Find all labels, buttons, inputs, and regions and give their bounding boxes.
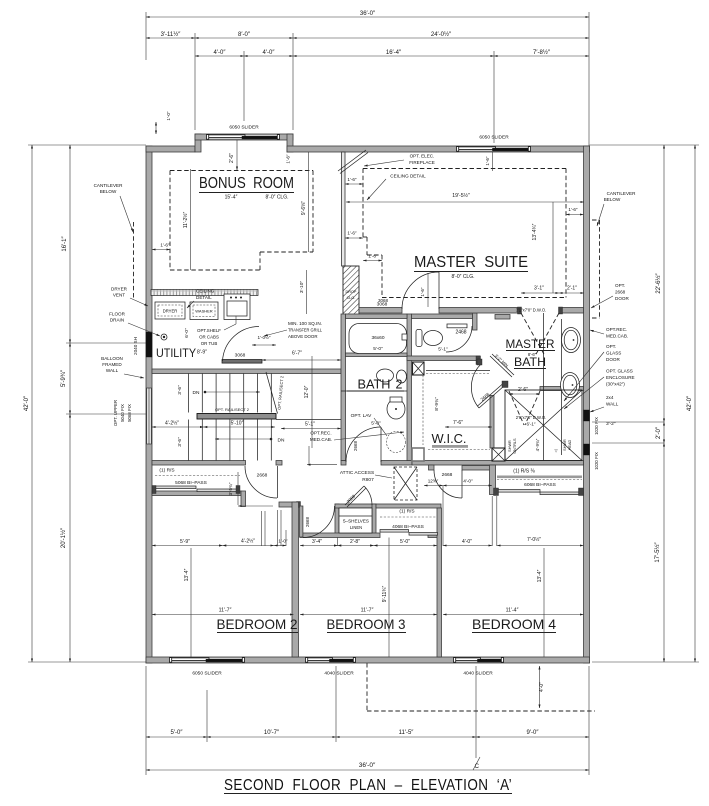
- toilet master toilet room: [424, 331, 443, 346]
- svg-text:OPT. LAV: OPT. LAV: [351, 413, 373, 419]
- svg-text:8′-0″ CLG.: 8′-0″ CLG.: [266, 195, 289, 201]
- svg-text:8′-9¾″: 8′-9¾″: [434, 397, 440, 411]
- wall middle band left: [152, 461, 246, 466]
- svg-text:6′-0″: 6′-0″: [184, 328, 190, 338]
- svg-text:13′-4″: 13′-4″: [537, 569, 543, 582]
- toilet bath2: [387, 399, 405, 419]
- bath2 tub front wall: [346, 353, 408, 357]
- svg-text:CANTILEVER: CANTILEVER: [94, 183, 124, 188]
- svg-text:16′-4″: 16′-4″: [386, 50, 402, 56]
- svg-text:DRYER: DRYER: [163, 309, 178, 314]
- vanity bath2: [341, 390, 407, 392]
- dimension 9'-0" bottom: [476, 736, 589, 738]
- svg-text:OR TUB: OR TUB: [201, 341, 218, 346]
- dimension 16'-1": [69, 145, 71, 343]
- svg-text:3068: 3068: [235, 353, 246, 359]
- svg-text:WASHER: WASHER: [195, 309, 213, 314]
- bipass 5068 bedroom2 closet: [155, 486, 196, 489]
- dimension 24'-0 1/2": [293, 37, 589, 39]
- svg-text:MED.CAB.: MED.CAB.: [606, 334, 628, 339]
- svg-text:CANTILEVER: CANTILEVER: [607, 191, 637, 196]
- dimension 36'-0" bottom: [146, 769, 589, 771]
- wic closet rod dashed: [422, 375, 424, 445]
- window 6050 slider top right: [457, 146, 530, 151]
- dimension 16'-4": [293, 55, 494, 57]
- svg-text:3′-6″: 3′-6″: [177, 437, 183, 447]
- bay wall top: [195, 134, 293, 140]
- wall hall stub bedroom4 door: [429, 465, 435, 470]
- extension lines top: [145, 12, 147, 60]
- svg-text:16′-1″: 16′-1″: [62, 235, 68, 251]
- dim 9'-11 3/4" bedroom3: [388, 538, 390, 658]
- svg-text:OPT. GLASS: OPT. GLASS: [606, 369, 633, 374]
- wic top wall: [407, 356, 480, 361]
- leader med cab: [308, 446, 310, 464]
- svg-text:36′-0″: 36′-0″: [359, 762, 376, 769]
- washer utility: [190, 302, 218, 320]
- svg-text:WALL: WALL: [606, 402, 619, 407]
- svg-text:CLG.: CLG.: [347, 296, 356, 300]
- wic right wall: [490, 396, 494, 449]
- svg-text:FLOOR: FLOOR: [109, 312, 126, 317]
- dryer utility: [155, 302, 185, 319]
- bedroom2 closet front wall: [152, 491, 241, 496]
- wall stairs top: [152, 369, 341, 374]
- svg-text:12′-0″: 12′-0″: [304, 385, 310, 398]
- svg-text:3′-6″: 3′-6″: [177, 385, 183, 395]
- dimension 7'-8 1/2": [494, 55, 589, 57]
- svg-text:C: C: [475, 764, 480, 770]
- svg-text:10′-7″: 10′-7″: [264, 730, 280, 736]
- dimension 3'-11 1/2": [146, 37, 195, 39]
- wall bath area top: [346, 314, 408, 319]
- svg-text:5′-10″: 5′-10″: [231, 421, 244, 427]
- dimension 36'-0" top: [146, 16, 589, 18]
- svg-text:1′-6″: 1′-6″: [368, 254, 378, 259]
- bay wall left jog: [195, 134, 201, 152]
- svg-text:(30″x42″): (30″x42″): [606, 382, 625, 387]
- svg-text:1′-0″: 1′-0″: [166, 111, 171, 121]
- svg-text:WALL: WALL: [106, 368, 119, 373]
- svg-text:2′-8″: 2′-8″: [350, 539, 360, 545]
- svg-text:BALLOON: BALLOON: [101, 356, 123, 361]
- svg-text:3′-4″: 3′-4″: [312, 539, 322, 545]
- svg-text:3′-11½″: 3′-11½″: [161, 31, 182, 38]
- bedroom2 closet jog: [241, 491, 246, 507]
- svg-text:SECOND FLOOR PLAN – ELEVAT: SECOND FLOOR PLAN – ELEVATION ‘A’: [224, 777, 512, 794]
- window 5068 FIX left wall: [147, 388, 151, 444]
- dim 3-2 min diagonal: [492, 354, 514, 375]
- svg-text:MASTER SUITE: MASTER SUITE: [414, 254, 528, 271]
- bipass 4068 bedroom3 closet: [380, 530, 409, 533]
- svg-text:4′-9¾″: 4′-9¾″: [535, 438, 540, 451]
- dimension 4'-0" cantilever: [539, 666, 541, 708]
- linen closet shelves: [339, 508, 372, 533]
- window 6050 slider bedroom2: [170, 657, 244, 662]
- master suite south wall c: [559, 308, 584, 314]
- dim 9'-6 5/8" bonus: [308, 152, 310, 252]
- door bath2 2668: [346, 427, 381, 462]
- window 6050 slider bay: [207, 134, 279, 139]
- wall bath2 bottom left stub: [341, 461, 346, 466]
- svg-text:LINEN: LINEN: [350, 525, 362, 530]
- svg-text:OPT.: OPT.: [615, 283, 625, 288]
- svg-text:GLASS: GLASS: [606, 351, 621, 356]
- svg-text:HEAD: HEAD: [568, 439, 572, 450]
- svg-text:22′-6½″: 22′-6½″: [655, 272, 662, 293]
- svg-text:12⅝″: 12⅝″: [428, 479, 439, 484]
- dwo shower dashed: [509, 391, 524, 425]
- svg-text:ENCLOSURE: ENCLOSURE: [606, 375, 635, 380]
- svg-text:20′-1½″: 20′-1½″: [60, 527, 67, 548]
- svg-text:11′-4″: 11′-4″: [506, 608, 519, 614]
- svg-text:5040 FIX: 5040 FIX: [120, 404, 125, 422]
- wall wic/shower bottom: [412, 461, 584, 466]
- svg-text:OPT.REC.: OPT.REC.: [310, 431, 331, 436]
- dwo master suite dashed: [518, 307, 522, 314]
- wall bedroom3/4 divider: [437, 508, 442, 657]
- svg-text:5′-1″: 5′-1″: [438, 347, 448, 353]
- sink bath2: [377, 369, 394, 382]
- master tub bowl lower: [561, 373, 580, 398]
- svg-text:OR CABS: OR CABS: [199, 335, 219, 340]
- window 2040 SH left wall: [146, 332, 152, 357]
- svg-text:OPT. RAIL/SECT 2: OPT. RAIL/SECT 2: [215, 407, 250, 412]
- cantilever outline below bottom: [366, 663, 368, 711]
- dimension 2'-0" right: [663, 422, 665, 443]
- wall hall south of linen: [376, 504, 441, 508]
- svg-text:36′-0″: 36′-0″: [360, 11, 376, 17]
- svg-text:BELOW: BELOW: [100, 189, 117, 194]
- dim 11'-2 1/2" bonus: [190, 169, 192, 270]
- master suite south wall b: [439, 308, 521, 314]
- linen closet right wall: [372, 504, 376, 534]
- stairs dim 4'-2 1/2": [152, 426, 204, 428]
- svg-text:OPT. ELEC.: OPT. ELEC.: [410, 154, 435, 159]
- svg-text:SHWR: SHWR: [563, 439, 567, 451]
- wall bath2 right: [407, 314, 412, 461]
- svg-text:4′-2½″: 4′-2½″: [165, 420, 179, 427]
- svg-text:2668: 2668: [442, 472, 453, 478]
- svg-text:2x4: 2x4: [606, 395, 614, 400]
- svg-text:4′-2½″: 4′-2½″: [241, 538, 255, 545]
- wall middle band stub: [276, 461, 282, 466]
- svg-text:4040 SLIDER: 4040 SLIDER: [324, 671, 354, 677]
- svg-text:4040 SLIDER: 4040 SLIDER: [463, 671, 493, 677]
- svg-text:4′-0″: 4′-0″: [462, 539, 472, 545]
- wall bath2 bottom right: [381, 461, 412, 466]
- dimension 5'-9 3/4": [69, 343, 71, 414]
- svg-text:8′-6″: 8′-6″: [528, 352, 537, 357]
- svg-text:19′-5½″: 19′-5½″: [452, 192, 470, 199]
- svg-text:11′-7″: 11′-7″: [219, 608, 232, 614]
- svg-text:BATH: BATH: [514, 355, 546, 369]
- stairs dim 5'-10": [204, 426, 275, 428]
- master tub inner edge: [561, 319, 563, 455]
- door master bath 2668: [479, 386, 504, 408]
- wall bedroom4 top: [462, 466, 494, 471]
- dimension 42'-0" right: [694, 145, 696, 662]
- svg-text:6050 SLIDER: 6050 SLIDER: [229, 125, 259, 131]
- svg-text:2668: 2668: [257, 473, 268, 479]
- svg-text:2040 SH: 2040 SH: [133, 337, 138, 355]
- shower top wall: [540, 387, 584, 391]
- chase wall drop clg hatched: [343, 266, 359, 316]
- svg-text:VENT: VENT: [113, 293, 125, 298]
- exterior wall left: [146, 146, 152, 663]
- svg-text:DOOR: DOOR: [606, 357, 620, 362]
- shower master: [505, 390, 582, 461]
- svg-text:(1) R/S: (1) R/S: [159, 468, 174, 474]
- svg-text:9′-6⅝″: 9′-6⅝″: [301, 201, 307, 215]
- linen closet top wall: [335, 504, 376, 508]
- svg-text:11′-2½″: 11′-2½″: [182, 212, 189, 229]
- svg-text:R807: R807: [362, 477, 374, 483]
- svg-text:5′-9″: 5′-9″: [180, 539, 190, 545]
- svg-text:FRAMED: FRAMED: [102, 362, 122, 367]
- wall stub bath top: [495, 315, 510, 320]
- dimension 17'-5 1/2": [663, 443, 665, 662]
- svg-text:OPT.SHELF: OPT.SHELF: [197, 328, 221, 333]
- door hall 2668: [245, 466, 277, 498]
- extension lines left: [28, 144, 146, 146]
- svg-text:3′-10″: 3′-10″: [299, 281, 305, 294]
- stairs treads: [188, 374, 190, 413]
- svg-text:7′-8½″: 7′-8½″: [533, 49, 551, 56]
- svg-text:36x60: 36x60: [371, 335, 384, 341]
- stairs DN arrow lower: [215, 438, 271, 440]
- stairs DN arrow upper: [205, 391, 260, 393]
- dimension 20'-1 1/2": [69, 414, 71, 662]
- svg-text:1′-6″: 1′-6″: [568, 207, 578, 212]
- svg-text:3′-1″: 3′-1″: [534, 286, 544, 292]
- svg-text:DN: DN: [193, 390, 200, 396]
- svg-text:DRAIN: DRAIN: [110, 318, 124, 323]
- master tub bowl upper: [562, 328, 581, 353]
- svg-text:DROP: DROP: [346, 290, 357, 294]
- utility door header wall: [222, 360, 262, 364]
- svg-text:13′-4¾″: 13′-4¾″: [532, 223, 538, 240]
- dim 11'-7" bedroom2: [152, 614, 294, 616]
- svg-text:CNTRLS: CNTRLS: [513, 438, 517, 454]
- svg-text:2′6″x7′0″ D.W.O.: 2′6″x7′0″ D.W.O.: [516, 415, 547, 420]
- svg-text:1′-6″: 1′-6″: [286, 154, 291, 164]
- dim row middle: [152, 545, 223, 547]
- dim 19'-5 1/2" master: [346, 201, 584, 203]
- svg-text:UTILITY: UTILITY: [156, 346, 196, 360]
- svg-text:ATTIC ACCESS: ATTIC ACCESS: [340, 470, 374, 476]
- svg-text:1020 FIX: 1020 FIX: [594, 417, 599, 435]
- dimension 5'-0" bottom: [146, 736, 207, 738]
- dimension 10'-7": [207, 736, 336, 738]
- svg-text:1′-6″: 1′-6″: [347, 177, 357, 182]
- svg-text:5′-0″: 5′-0″: [373, 346, 383, 352]
- bipass 6068 master closet: [497, 490, 540, 493]
- dim 2'-1" master: [559, 292, 584, 294]
- svg-text:3068: 3068: [378, 298, 389, 303]
- svg-text:BELOW: BELOW: [604, 197, 621, 202]
- opt lav bath2: [387, 432, 406, 453]
- dim 3'-1" master: [521, 292, 559, 294]
- svg-text:1′-6″: 1′-6″: [420, 287, 425, 297]
- dim 13'-4" bedroom2: [190, 548, 192, 657]
- svg-text:3′1″x7′0″ D.W.O.: 3′1″x7′0″ D.W.O.: [516, 308, 547, 313]
- wall hall stub above divider: [279, 502, 300, 507]
- svg-text:13′-4″: 13′-4″: [184, 568, 190, 581]
- exterior wall right: [584, 146, 590, 663]
- master tub alcove left edge: [543, 313, 545, 461]
- window 4040 slider bedroom3: [306, 657, 355, 662]
- svg-text:11′-5″: 11′-5″: [399, 730, 415, 736]
- svg-text:1020 FIX: 1020 FIX: [594, 452, 599, 470]
- svg-text:2′-0″: 2′-0″: [656, 426, 662, 439]
- svg-text:6068 BI–PASS: 6068 BI–PASS: [524, 482, 556, 488]
- wall toilet room top: [412, 314, 473, 319]
- svg-text:DN: DN: [278, 438, 285, 444]
- svg-text:DETAIL: DETAIL: [196, 295, 212, 300]
- door toilet 2468: [447, 324, 467, 328]
- svg-text:TRANSFER GRILL: TRANSFER GRILL: [288, 328, 322, 333]
- svg-text:11′-7″: 11′-7″: [361, 608, 374, 614]
- dim 11'-7" bedroom3: [300, 614, 437, 616]
- ext lines middle row: [261, 511, 263, 546]
- svg-text:4′-0″: 4′-0″: [214, 50, 227, 56]
- svg-text:4068 BI–PASS: 4068 BI–PASS: [392, 524, 424, 530]
- exterior wall bottom: [146, 657, 590, 663]
- svg-text:7′-6″: 7′-6″: [453, 420, 463, 426]
- chase box wic corner: [492, 448, 505, 461]
- svg-text:MED.CAB.: MED.CAB.: [310, 437, 332, 442]
- door utility 3068: [223, 326, 260, 361]
- dim 13'-4 3/4" master: [552, 202, 554, 293]
- svg-text:MIN. 100 SQ.IN.: MIN. 100 SQ.IN.: [288, 321, 322, 326]
- svg-text:2′-6″: 2′-6″: [229, 153, 235, 163]
- svg-text:FIREPLACE: FIREPLACE: [409, 160, 435, 165]
- master closet left wall: [490, 465, 496, 495]
- dimension 42'-0" left: [31, 145, 33, 662]
- svg-text:2468: 2468: [455, 330, 466, 336]
- svg-text:5068 BI–PASS: 5068 BI–PASS: [175, 480, 207, 486]
- svg-text:1′-6″: 1′-6″: [485, 156, 490, 166]
- svg-text:42′-0″: 42′-0″: [24, 395, 30, 411]
- svg-text:2: 2: [396, 378, 403, 392]
- utility counter hatch: [151, 290, 258, 296]
- svg-text:5′-0″: 5′-0″: [400, 539, 410, 545]
- svg-text:CEILING DETAIL: CEILING DETAIL: [390, 174, 426, 179]
- bedroom3 top wall left: [300, 533, 380, 538]
- wall bonus/master divider: [342, 152, 346, 266]
- linen closet left wall: [335, 504, 339, 534]
- window 1020 FIX upper: [584, 410, 590, 421]
- svg-text:BEDROOM 2: BEDROOM 2: [217, 616, 298, 632]
- svg-text:8′-9″: 8′-9″: [197, 350, 207, 356]
- extension lines right: [590, 144, 700, 146]
- dimension 11'-5": [336, 736, 476, 738]
- dimension 4'-0" b: [244, 55, 293, 57]
- svg-text:7′-0½″: 7′-0½″: [527, 536, 541, 543]
- svg-text:6′-1″: 6′-1″: [527, 422, 536, 427]
- svg-text:42′-0″: 42′-0″: [687, 395, 693, 411]
- svg-text:OPT.: OPT.: [606, 344, 616, 349]
- svg-text:W.I.C.: W.I.C.: [432, 432, 467, 446]
- wall bedroom2/3 divider: [292, 502, 299, 657]
- svg-text:8′-0″: 8′-0″: [238, 32, 251, 38]
- door bedroom3 2668: [300, 506, 303, 537]
- svg-text:6′-7″: 6′-7″: [292, 351, 302, 357]
- cantilever dashed left: [133, 222, 135, 298]
- dim 13'-4" bedroom4: [543, 548, 545, 657]
- laundry sink utility: [224, 294, 250, 320]
- svg-text:2668: 2668: [305, 516, 310, 527]
- svg-text:(1) R/S ⅜: (1) R/S ⅜: [513, 469, 535, 475]
- svg-text:4′-0″: 4′-0″: [463, 479, 473, 485]
- svg-text:8′-0″ CLG.: 8′-0″ CLG.: [452, 274, 475, 280]
- svg-text:9′-11¾″: 9′-11¾″: [382, 586, 388, 603]
- dimension 4'-0" a: [195, 55, 244, 57]
- cantilever dashed right: [592, 219, 600, 221]
- attic access box: [394, 467, 417, 500]
- window 1020 FIX lower: [584, 444, 590, 455]
- svg-text:4′-0″: 4′-0″: [263, 50, 276, 56]
- svg-text:5068 FIX: 5068 FIX: [127, 404, 132, 422]
- dimension 22'-6 1/2": [663, 145, 665, 422]
- svg-text:OPT. UPPER: OPT. UPPER: [113, 400, 118, 426]
- svg-text:BONUS ROOM: BONUS ROOM: [199, 175, 294, 192]
- tub 36x60 bath2: [349, 324, 407, 354]
- window 4040 slider bedroom4: [454, 657, 503, 662]
- door hall 2068 diagonal: [345, 486, 364, 505]
- bonus room ceiling detail dashed: [170, 170, 313, 172]
- wic top shelf: [426, 370, 490, 372]
- svg-text:2′-1″: 2′-1″: [567, 286, 577, 292]
- hall jamb box: [412, 448, 424, 461]
- svg-text:1′-6″: 1′-6″: [160, 243, 170, 248]
- svg-text:2668: 2668: [615, 290, 626, 295]
- dimension 8'-0" top: [195, 37, 293, 39]
- floor drain: [161, 334, 167, 340]
- svg-text:MASTER: MASTER: [506, 337, 555, 351]
- svg-text:2668: 2668: [353, 440, 358, 451]
- svg-text:CEILING: CEILING: [196, 289, 215, 294]
- svg-text:5′-1″: 5′-1″: [305, 422, 315, 428]
- wall stub toilet room right: [473, 313, 478, 330]
- svg-text:ABOVE DOOR: ABOVE DOOR: [288, 334, 318, 339]
- svg-text:DRYER: DRYER: [111, 287, 128, 292]
- wall bath2 left: [341, 314, 346, 461]
- extension lines bottom: [145, 666, 147, 775]
- svg-text:17′-5½″: 17′-5½″: [654, 541, 661, 562]
- svg-text:6050 SLIDER: 6050 SLIDER: [479, 135, 509, 141]
- door bedroom4 2668: [434, 470, 462, 498]
- svg-text:3′-2″: 3′-2″: [606, 421, 616, 427]
- svg-text:(1) R/S: (1) R/S: [399, 509, 414, 515]
- svg-text:DOOR: DOOR: [615, 296, 629, 301]
- svg-text:1′-0″: 1′-0″: [278, 539, 288, 544]
- svg-text:OPT.REC.: OPT.REC.: [606, 327, 627, 332]
- svg-text:5–SHELVES: 5–SHELVES: [343, 519, 369, 524]
- exterior wall top left segment: [146, 146, 195, 152]
- svg-text:BEDROOM 4: BEDROOM 4: [472, 616, 556, 632]
- svg-text:9′-0″: 9′-0″: [527, 730, 540, 736]
- svg-text:1′-6″: 1′-6″: [347, 231, 357, 236]
- svg-text:15′-4″: 15′-4″: [225, 195, 238, 201]
- svg-text:6050 SLIDER: 6050 SLIDER: [192, 671, 222, 677]
- svg-text:24′-0½″: 24′-0½″: [431, 31, 452, 38]
- door master suite 3068: [402, 272, 439, 309]
- svg-text:BATH: BATH: [358, 378, 391, 392]
- svg-text:BEDROOM 3: BEDROOM 3: [327, 616, 406, 632]
- master suite south wall a: [359, 308, 402, 314]
